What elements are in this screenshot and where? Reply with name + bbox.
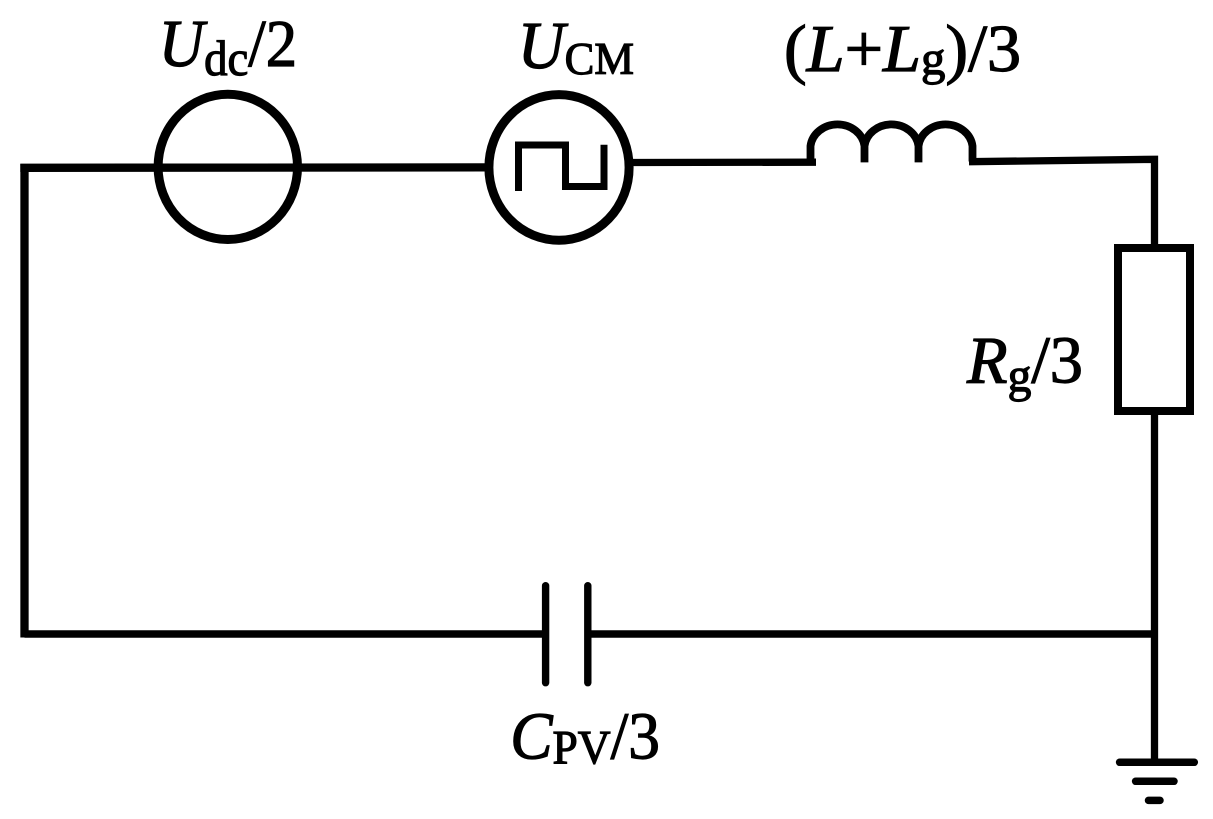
ground symbol: bottom bar: [1149, 797, 1161, 805]
label UCM: [518, 9, 634, 84]
wire: inductor to top-right corner, down to resistor top: [969, 159, 1155, 248]
wire: UCM right edge to inductor: [632, 159, 816, 167]
label Udc/2: [159, 7, 297, 86]
voltage source Udc/2 circle: [158, 94, 297, 239]
label Rg/3: [966, 324, 1083, 402]
inductor L (L+Lg)/3 : three overlapping arcs: [811, 124, 973, 165]
capacitor CPV/3 right plate: [584, 586, 591, 683]
wire: bottom horizontal left segment from left corner to capacitor left plate: [25, 630, 543, 638]
wire: top horizontal from left corner through Udc source to UCM left edge: [20, 163, 486, 172]
wire: bottom horizontal right segment from capacitor right plate to junction: [591, 630, 1158, 638]
label (L+Lg)/3: [784, 11, 1021, 85]
ground symbol: top bar: [1120, 759, 1195, 767]
resistor Rg/3 body: [1118, 248, 1190, 411]
square-wave symbol inside UCM: [519, 145, 605, 191]
label CPV/3: [510, 700, 660, 775]
wire: left vertical side: [20, 164, 28, 638]
svg-text:(L+Lg)/3: (L+Lg)/3: [784, 11, 1021, 85]
capacitor CPV/3 left plate: [542, 586, 549, 683]
wire: resistor bottom to bottom-right junction, and down to ground: [1151, 411, 1158, 762]
ground symbol: middle bar: [1136, 778, 1174, 786]
square-wave source UCM circle: [489, 95, 629, 241]
